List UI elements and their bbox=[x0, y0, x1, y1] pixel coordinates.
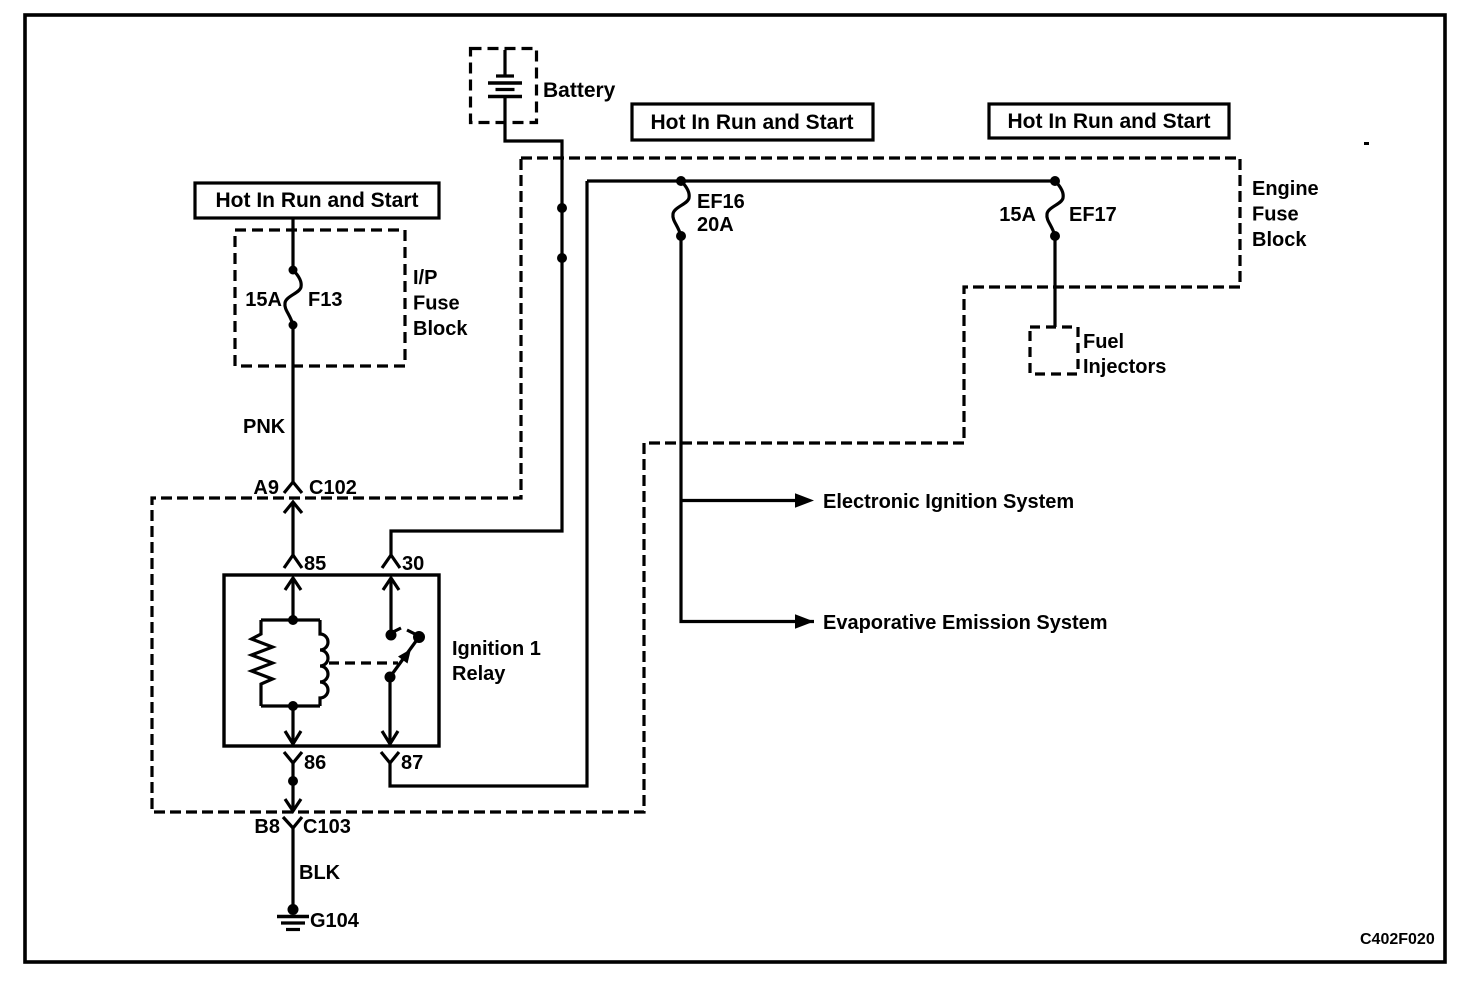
pin 87 internal wire with arrow bbox=[382, 677, 398, 744]
svg-text:Fuse: Fuse bbox=[413, 293, 460, 315]
relay coil top rail bbox=[261, 618, 320, 621]
I/P Fuse Block label bbox=[413, 267, 468, 340]
pin 85 internal wire with arrow bbox=[285, 578, 301, 620]
svg-text:EF17: EF17 bbox=[1069, 204, 1117, 226]
wire pin 86 to connector C103 bbox=[291, 770, 294, 810]
electronic ignition arrowhead bbox=[795, 493, 814, 507]
blade tip nib bbox=[407, 630, 419, 636]
svg-text:Fuse: Fuse bbox=[1252, 204, 1299, 226]
wire battery feed: down, right, down to relay pin 30 bbox=[391, 97, 562, 557]
contact nib bbox=[391, 628, 401, 633]
Fuel Injectors label bbox=[1083, 331, 1166, 378]
switch blade tip dot bbox=[413, 631, 425, 643]
engine fuse block dashed boundary bbox=[152, 158, 1240, 812]
svg-text:F13: F13 bbox=[308, 289, 342, 311]
connector C103 chevron bbox=[283, 817, 302, 836]
pin 87 chevron below relay bbox=[381, 752, 399, 763]
svg-text:B8: B8 bbox=[254, 816, 280, 838]
svg-text:87: 87 bbox=[401, 752, 423, 774]
fuse F13 bbox=[285, 266, 301, 330]
fuse EF16 bbox=[673, 176, 689, 241]
relay pin 30 chevron bbox=[382, 555, 400, 568]
svg-text:Hot In Run and Start: Hot In Run and Start bbox=[1008, 110, 1211, 133]
svg-text:Battery: Battery bbox=[543, 79, 616, 102]
branch wire to electronic ignition bbox=[681, 499, 798, 502]
svg-text:PNK: PNK bbox=[243, 416, 286, 438]
svg-text:C102: C102 bbox=[309, 477, 357, 499]
svg-text:15A: 15A bbox=[245, 289, 282, 311]
svg-text:Block: Block bbox=[413, 318, 468, 340]
svg-text:Fuel: Fuel bbox=[1083, 331, 1124, 353]
svg-text:Block: Block bbox=[1252, 229, 1307, 251]
fuse supply bus bbox=[587, 179, 1055, 182]
wire F13 to connector C102, PNK bbox=[291, 325, 294, 483]
ground G104 bbox=[277, 904, 309, 930]
svg-text:30: 30 bbox=[402, 553, 424, 575]
pin 30 internal wire with arrow bbox=[383, 578, 399, 635]
C103 terminal arrow bbox=[285, 799, 301, 811]
C102 male terminal arrow bbox=[284, 502, 302, 556]
svg-text:15A: 15A bbox=[999, 204, 1036, 226]
wire pin 87 to fuse bus riser bbox=[390, 181, 587, 786]
Hot In Run and Start box 3 bbox=[989, 104, 1229, 138]
svg-text:Engine: Engine bbox=[1252, 178, 1319, 200]
relay coil resistor zigzag bbox=[252, 620, 273, 706]
wire C103 to ground, BLK bbox=[291, 836, 294, 908]
svg-text:Electronic Ignition System: Electronic Ignition System bbox=[823, 491, 1074, 513]
svg-text:I/P: I/P bbox=[413, 267, 437, 289]
svg-text:20A: 20A bbox=[697, 214, 734, 236]
switch lower contact dot bbox=[385, 672, 396, 683]
switch blade bbox=[390, 637, 419, 677]
EF16 20A value labels bbox=[697, 191, 745, 236]
connector C102 chevron bbox=[284, 482, 302, 493]
svg-text:Relay: Relay bbox=[452, 663, 506, 685]
Ignition 1 Relay label bbox=[452, 638, 541, 685]
coil-switch linkage dashed bbox=[329, 661, 398, 664]
svg-text:86: 86 bbox=[304, 752, 326, 774]
splice dot on battery feed bbox=[557, 203, 567, 213]
battery dashed box bbox=[471, 49, 537, 123]
15A EF17 value labels bbox=[999, 204, 1117, 226]
coil top junction dot bbox=[288, 615, 298, 625]
svg-text:Hot In Run and Start: Hot In Run and Start bbox=[651, 111, 854, 134]
fuse EF17 bbox=[1047, 176, 1063, 241]
evaporative emission arrowhead bbox=[795, 614, 814, 628]
svg-text:85: 85 bbox=[304, 553, 326, 575]
fuel injectors dashed box bbox=[1030, 327, 1078, 374]
I/P fuse block dashed boundary bbox=[235, 230, 405, 366]
relay coil inductor bbox=[320, 620, 328, 706]
svg-text:G104: G104 bbox=[310, 910, 360, 932]
relay coil bottom rail bbox=[261, 704, 320, 707]
scan artifact mark bbox=[1364, 142, 1369, 145]
coil bottom junction dot bbox=[288, 701, 298, 711]
splice dot bbox=[288, 776, 298, 786]
svg-text:C402F020: C402F020 bbox=[1360, 931, 1435, 948]
svg-text:Evaporative Emission System: Evaporative Emission System bbox=[823, 612, 1108, 634]
svg-text:EF16: EF16 bbox=[697, 191, 745, 213]
svg-text:C103: C103 bbox=[303, 816, 351, 838]
wire from box1 to fuse F13 bbox=[291, 218, 294, 270]
relay pin 85 chevron bbox=[284, 555, 302, 568]
svg-text:Ignition 1: Ignition 1 bbox=[452, 638, 541, 660]
splice dot on battery feed bbox=[557, 253, 567, 263]
wire EF17 to fuel injectors bbox=[1053, 236, 1056, 327]
Engine Fuse Block label bbox=[1252, 178, 1319, 251]
battery symbol bbox=[488, 50, 522, 97]
svg-text:A9: A9 bbox=[253, 477, 279, 499]
relay U1 Ignition 1 Relay box bbox=[224, 575, 439, 746]
switch fixed contact dot bbox=[386, 630, 397, 641]
blade motion arrowhead bbox=[398, 649, 411, 664]
pin 86 chevron below relay bbox=[284, 752, 302, 763]
svg-text:BLK: BLK bbox=[299, 862, 341, 884]
svg-text:Hot In Run and Start: Hot In Run and Start bbox=[216, 189, 419, 212]
pin 86 internal wire with arrow bbox=[285, 706, 301, 744]
svg-text:Injectors: Injectors bbox=[1083, 356, 1166, 378]
wire EF16 to system branches bbox=[681, 236, 814, 622]
Hot In Run and Start box 2 bbox=[632, 104, 873, 140]
Hot In Run and Start box 1 bbox=[195, 183, 439, 218]
